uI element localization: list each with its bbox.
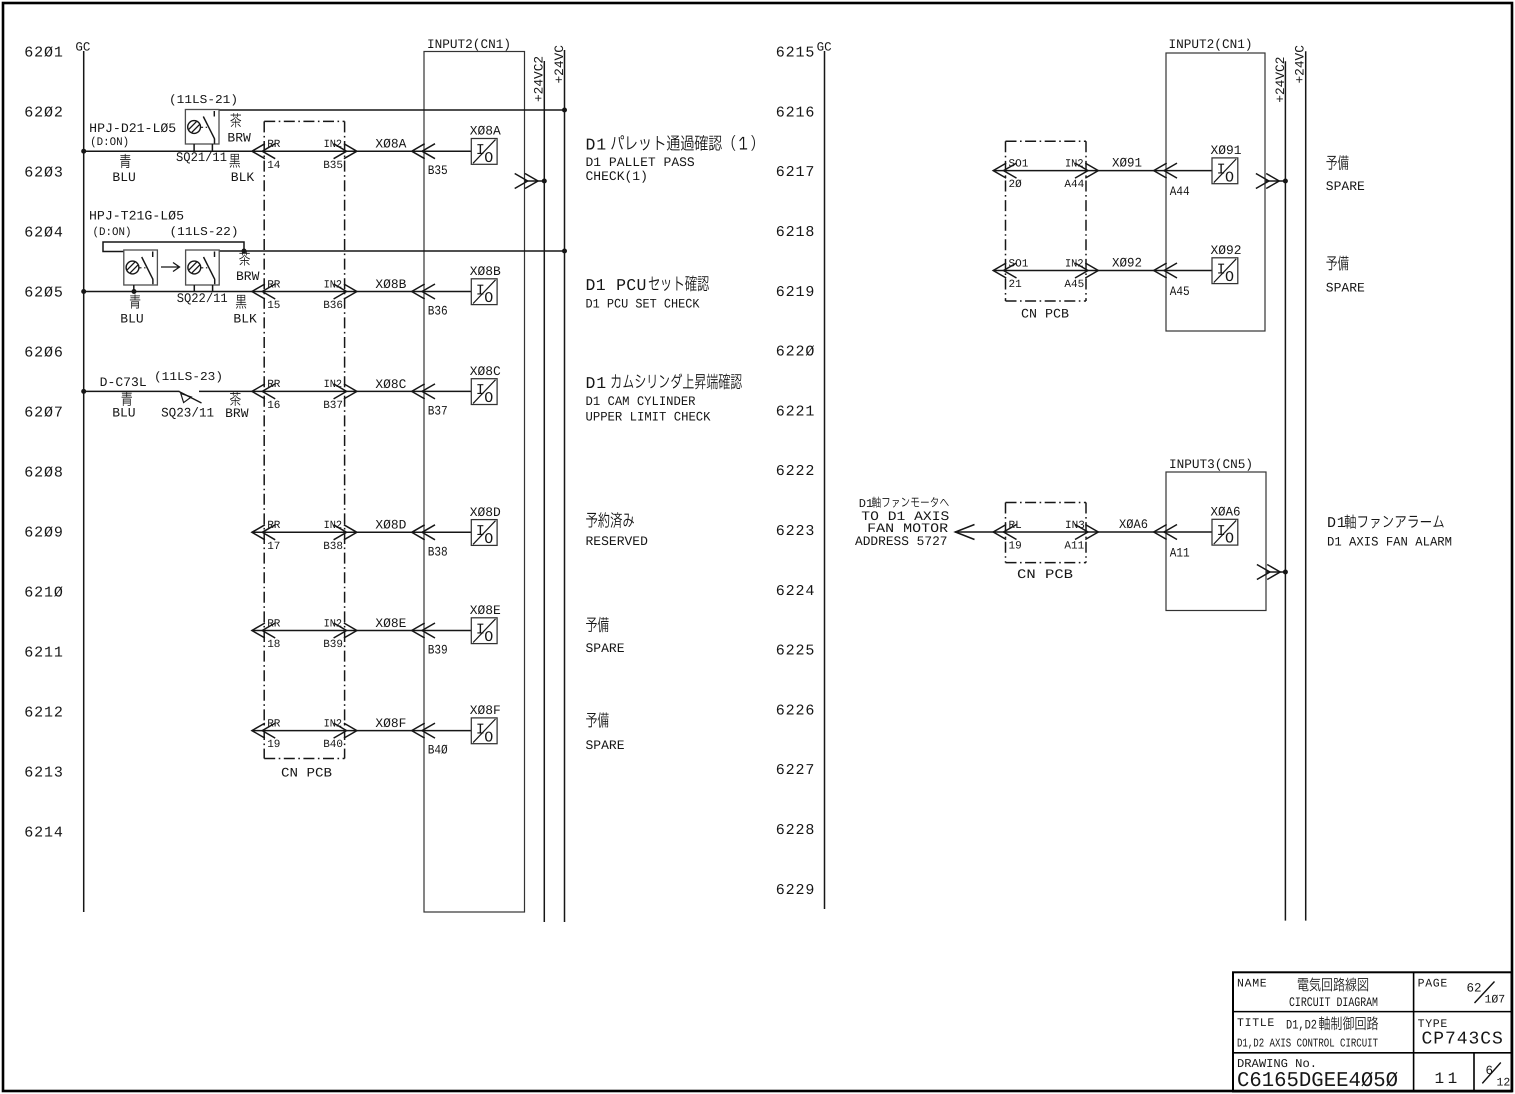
title block PAGE cell — [1418, 978, 1506, 1007]
description X091 (spare) — [1326, 155, 1365, 194]
pin SO1/21 (CN PCB left) — [993, 258, 1029, 291]
svg-text:622Ø: 622Ø — [776, 344, 816, 361]
svg-text:62Ø8: 62Ø8 — [24, 465, 64, 482]
svg-text:6216: 6216 — [776, 104, 816, 121]
title block TYPE cell — [1418, 1018, 1504, 1050]
svg-text:21: 21 — [1009, 279, 1023, 291]
svg-text:A11: A11 — [1064, 541, 1084, 553]
I/O point X08B — [471, 279, 497, 307]
svg-text:IN2: IN2 — [324, 139, 343, 151]
svg-text:B37: B37 — [428, 403, 448, 418]
description row5 (spare) — [586, 617, 625, 656]
svg-text:B37: B37 — [323, 400, 343, 412]
svg-text:XØ8C: XØ8C — [470, 364, 501, 379]
svg-text:SO1: SO1 — [1009, 158, 1029, 170]
pin RR/17 (CN PCB left) — [252, 520, 281, 553]
svg-text:6219: 6219 — [776, 284, 816, 301]
svg-text:O: O — [484, 531, 493, 548]
arrow to D1 axis fan motor — [955, 525, 974, 540]
svg-text:XØ91: XØ91 — [1211, 143, 1242, 158]
svg-text:(D:ON): (D:ON) — [90, 136, 129, 149]
+24VC rail (right) — [1293, 45, 1308, 921]
svg-text:D1 AXIS FAN ALARM: D1 AXIS FAN ALARM — [1327, 534, 1452, 549]
output arrow X0A6 to +24VC2 — [1257, 565, 1288, 580]
svg-text:2Ø: 2Ø — [1009, 179, 1023, 191]
svg-text:14: 14 — [267, 160, 281, 172]
svg-text:CN PCB: CN PCB — [1017, 567, 1073, 582]
svg-text:6228: 6228 — [776, 822, 816, 839]
svg-text:CHECK(1): CHECK(1) — [586, 169, 648, 184]
junction HPJ-T21G stub — [132, 289, 137, 294]
pin arrow into INPUT2 B36 — [412, 284, 425, 299]
I/O point X08A — [471, 139, 497, 167]
svg-text:18: 18 — [267, 639, 280, 651]
wire row X092 — [993, 270, 1212, 272]
svg-text:UPPER LIMIT CHECK: UPPER LIMIT CHECK — [586, 410, 711, 425]
wire row X08C — [84, 390, 472, 392]
svg-text:BRW: BRW — [227, 130, 251, 145]
output arrow X091 to +24VC2 — [1256, 174, 1288, 189]
svg-text:GC: GC — [75, 40, 90, 54]
svg-text:D1: D1 — [586, 136, 607, 155]
svg-text:IN2: IN2 — [324, 279, 343, 291]
svg-text:CN PCB: CN PCB — [1021, 307, 1069, 322]
description X092 (spare) — [1326, 256, 1365, 296]
mechanical link arrow — [161, 263, 180, 272]
I/O point X08D — [471, 520, 497, 548]
svg-text:RESERVED: RESERVED — [586, 534, 649, 549]
wire row X08F — [252, 730, 471, 732]
pin RR/19 (CN PCB left) — [252, 718, 281, 751]
pin arrow into INPUT2 B37 — [412, 384, 425, 399]
left line-number column 6201-6214 — [24, 45, 64, 842]
svg-text:IN2: IN2 — [1065, 158, 1084, 170]
limit switch SQ22/11 — [186, 250, 220, 292]
svg-text:A45: A45 — [1064, 279, 1084, 291]
svg-text:BLK: BLK — [231, 170, 255, 185]
svg-text:IN2: IN2 — [1065, 258, 1084, 270]
I/O point X092 — [1212, 258, 1238, 286]
wire colour BLU (blue) SQ21 — [112, 154, 135, 185]
svg-text:RL: RL — [1009, 520, 1022, 532]
svg-text:NAME: NAME — [1237, 978, 1267, 991]
pin arrow into INPUT2 A44 — [1154, 163, 1167, 178]
pin arrow into INPUT2 B39 — [412, 623, 425, 638]
I/O point X08E — [471, 618, 497, 646]
svg-text:6217: 6217 — [776, 164, 816, 181]
svg-text:B39: B39 — [323, 639, 343, 651]
svg-text:6214: 6214 — [24, 825, 64, 842]
svg-text:CN PCB: CN PCB — [281, 766, 332, 781]
svg-text:6229: 6229 — [776, 882, 816, 899]
svg-text:SO1: SO1 — [1009, 258, 1029, 270]
wire +24VC feed row 6204 — [219, 249, 567, 254]
svg-text:621Ø: 621Ø — [24, 585, 64, 602]
svg-text:XØ8B: XØ8B — [470, 264, 501, 279]
svg-text:XØA6: XØA6 — [1119, 517, 1148, 532]
svg-text:RR: RR — [267, 139, 281, 151]
svg-text:D1: D1 — [586, 374, 607, 393]
+24VC2 rail (left) — [532, 56, 547, 922]
svg-text:D1 CAM CYLINDER: D1 CAM CYLINDER — [586, 394, 696, 409]
svg-text:B40: B40 — [323, 739, 343, 751]
svg-text:XØ8F: XØ8F — [470, 703, 501, 718]
svg-text:XØ8A: XØ8A — [375, 137, 406, 152]
svg-text:62: 62 — [1467, 982, 1482, 996]
svg-text:B35: B35 — [323, 160, 343, 172]
title block NAME cell — [1237, 977, 1378, 1009]
svg-text:O: O — [1225, 531, 1234, 548]
svg-text:RR: RR — [267, 520, 281, 532]
svg-text:6222: 6222 — [776, 463, 816, 480]
svg-text:(11LS-22): (11LS-22) — [170, 225, 239, 239]
svg-text:6223: 6223 — [776, 523, 816, 540]
svg-text:D1 PCU SET CHECK: D1 PCU SET CHECK — [586, 296, 700, 311]
+24VC2 rail (right) — [1273, 57, 1288, 921]
svg-text:6225: 6225 — [776, 643, 816, 660]
limit switch HPJ-T21G-L05 head — [124, 250, 158, 292]
svg-text:B38: B38 — [323, 541, 343, 553]
title block DRAWING cell — [1237, 1057, 1398, 1093]
right line-number column 6215-6229 — [776, 45, 816, 899]
svg-text:6215: 6215 — [776, 45, 816, 62]
wire colour BLU SQ23 — [112, 392, 135, 421]
svg-text:TITLE: TITLE — [1237, 1017, 1275, 1030]
I/O point X08F — [471, 718, 497, 746]
svg-text:XØ8B: XØ8B — [375, 277, 406, 292]
svg-text:17: 17 — [267, 541, 280, 553]
pin IN2/B39 (CN PCB right) — [323, 618, 357, 651]
bus GC (left) — [75, 40, 90, 912]
wire row X08B — [84, 291, 472, 293]
svg-text:62Ø5: 62Ø5 — [24, 285, 64, 302]
connector INPUT3(CN5) box — [1166, 457, 1266, 611]
svg-text:XØ91: XØ91 — [1112, 156, 1142, 171]
title block frame — [1233, 972, 1512, 1091]
svg-text:XØ8C: XØ8C — [375, 377, 406, 392]
svg-text:DRAWING No.: DRAWING No. — [1237, 1057, 1317, 1071]
description row6 (spare) — [586, 712, 625, 753]
pin RR/14 (CN PCB left) — [252, 139, 281, 172]
connector INPUT2(CN1) box (left) — [424, 37, 525, 912]
svg-text:6212: 6212 — [24, 705, 64, 722]
svg-text:SPARE: SPARE — [1326, 179, 1365, 194]
svg-text:15: 15 — [267, 300, 280, 312]
wire colour BRW SQ22 — [236, 251, 260, 284]
svg-text:(11LS-23): (11LS-23) — [154, 370, 223, 384]
svg-text:SPARE: SPARE — [1326, 280, 1365, 295]
svg-text:SQ22/11: SQ22/11 — [177, 291, 228, 306]
svg-text:O: O — [1225, 269, 1234, 286]
connector INPUT2(CN1) box (right) — [1166, 37, 1265, 331]
pin IN2/B40 (CN PCB right) — [323, 718, 357, 751]
svg-text:B38: B38 — [428, 544, 448, 559]
wire colour BLK SQ22 — [233, 295, 257, 327]
svg-text:B39: B39 — [428, 643, 448, 658]
svg-text:IN2: IN2 — [324, 520, 343, 532]
pin arrow into INPUT2 B40 — [412, 723, 425, 738]
svg-text:XØA6: XØA6 — [1211, 505, 1241, 520]
svg-text:B36: B36 — [428, 304, 448, 319]
svg-text:SPARE: SPARE — [586, 641, 625, 656]
svg-text:D1 PCU: D1 PCU — [586, 276, 647, 295]
svg-text:XØ8D: XØ8D — [375, 518, 406, 533]
pin IN2/A45 (CN PCB right) — [1064, 258, 1098, 291]
svg-text:BRW: BRW — [236, 269, 260, 284]
svg-text:BLU: BLU — [120, 312, 143, 327]
svg-text:XØ8E: XØ8E — [375, 616, 406, 631]
svg-text:16: 16 — [267, 400, 280, 412]
pin SO1/20 (CN PCB left) — [993, 158, 1029, 191]
svg-text:BLU: BLU — [112, 405, 135, 420]
svg-text:IN2: IN2 — [324, 379, 343, 391]
limit switch SQ23/11 (D-C73L) contact — [179, 390, 202, 404]
wire row X08D — [252, 531, 471, 533]
junction on GC — [81, 149, 86, 154]
svg-text:INPUT3(CN5): INPUT3(CN5) — [1169, 457, 1253, 472]
svg-text:XØ8D: XØ8D — [470, 505, 501, 520]
svg-text:RR: RR — [267, 279, 281, 291]
svg-text:B4Ø: B4Ø — [428, 743, 448, 758]
svg-text:62Ø3: 62Ø3 — [24, 165, 64, 182]
svg-text:O: O — [484, 390, 493, 407]
svg-text:XØ8A: XØ8A — [470, 124, 501, 139]
pin IN2/B38 (CN PCB right) — [323, 520, 357, 553]
svg-text:CIRCUIT DIAGRAM: CIRCUIT DIAGRAM — [1289, 995, 1378, 1010]
svg-text:RR: RR — [267, 379, 281, 391]
svg-text:BRW: BRW — [225, 406, 249, 421]
connector CN PCB (right upper) dash-dot outline — [1006, 141, 1087, 301]
pin arrow into INPUT2 B38 — [412, 525, 425, 540]
svg-text:A44: A44 — [1170, 184, 1190, 199]
pin RL/19 (CN PCB left) — [993, 520, 1022, 553]
output arrow X08A to +24VC2 — [515, 174, 545, 189]
svg-text:62Ø6: 62Ø6 — [24, 345, 64, 362]
svg-text:IN2: IN2 — [324, 618, 343, 630]
+24VC rail (left) — [552, 45, 567, 922]
svg-text:6218: 6218 — [776, 224, 816, 241]
wire colour BLU SQ22 — [120, 294, 143, 326]
svg-text:62Ø7: 62Ø7 — [24, 405, 64, 422]
svg-text:11: 11 — [1435, 1070, 1461, 1088]
svg-text:A44: A44 — [1064, 179, 1084, 191]
svg-text:O: O — [484, 729, 493, 746]
svg-text:19: 19 — [267, 739, 280, 751]
svg-text:6211: 6211 — [24, 645, 64, 662]
I/O point X091 — [1212, 158, 1238, 186]
pin arrow into INPUT3 A11 — [1154, 525, 1167, 540]
pin arrow into INPUT2 B35 — [412, 144, 425, 159]
svg-text:RR: RR — [267, 718, 281, 730]
bus GC (right) — [817, 40, 832, 909]
pin RR/16 (CN PCB left) — [252, 379, 281, 412]
svg-text:ADDRESS 5727: ADDRESS 5727 — [855, 534, 948, 549]
svg-text:BLU: BLU — [112, 170, 135, 185]
svg-text:6227: 6227 — [776, 762, 816, 779]
svg-text:O: O — [1225, 169, 1234, 186]
svg-text:XØ92: XØ92 — [1211, 243, 1242, 258]
svg-text:HPJ-T21G-LØ5: HPJ-T21G-LØ5 — [89, 209, 184, 224]
wire colour BRW SQ23 — [225, 392, 249, 421]
svg-text:O: O — [484, 150, 493, 167]
I/O point X0A6 — [1212, 519, 1238, 547]
svg-text:D-C73L: D-C73L — [100, 375, 147, 390]
svg-text:INPUT2(CN1): INPUT2(CN1) — [427, 37, 511, 52]
connector CN PCB (left) dash-dot outline — [264, 121, 344, 758]
svg-text:(D:ON): (D:ON) — [93, 226, 132, 239]
svg-text:INPUT2(CN1): INPUT2(CN1) — [1169, 37, 1253, 52]
wire row X091 — [993, 170, 1212, 172]
wire colour BRW (brown) SQ21 — [227, 113, 251, 145]
svg-text:HPJ-D21-LØ5: HPJ-D21-LØ5 — [89, 121, 176, 136]
junction X08A output on +24VC2 — [542, 179, 547, 184]
svg-text:1Ø7: 1Ø7 — [1485, 994, 1506, 1007]
svg-text:CP743CS: CP743CS — [1422, 1029, 1504, 1049]
svg-text:(11LS-21): (11LS-21) — [169, 93, 238, 107]
svg-text:D1,D2: D1,D2 — [1286, 1018, 1317, 1033]
pin IN2/B36 (CN PCB right) — [323, 279, 357, 312]
junction on GC — [81, 289, 86, 294]
pin arrow into INPUT2 A45 — [1154, 263, 1167, 278]
svg-text:A11: A11 — [1170, 546, 1190, 561]
svg-text:6221: 6221 — [776, 403, 816, 420]
pin IN2/B35 (CN PCB right) — [323, 139, 357, 172]
svg-text:XØ8E: XØ8E — [470, 603, 501, 618]
description D1 axis fan alarm — [1327, 514, 1452, 549]
svg-text:D1: D1 — [1327, 515, 1347, 532]
wire row X08E — [252, 630, 471, 632]
svg-text:12: 12 — [1497, 1076, 1511, 1089]
svg-text:A45: A45 — [1170, 284, 1190, 299]
description row2 (D1 PCU set check) — [586, 276, 709, 312]
svg-text:D1 PALLET PASS: D1 PALLET PASS — [586, 155, 695, 170]
svg-text:PAGE: PAGE — [1418, 978, 1448, 991]
wire row X08A — [84, 150, 472, 152]
svg-text:62Ø2: 62Ø2 — [24, 105, 64, 122]
limit switch SQ21/11 (HPJ-D21-L05) — [185, 110, 219, 152]
title block TITLE cell — [1237, 1016, 1378, 1050]
svg-text:O: O — [484, 290, 493, 307]
pin IN3/A11 (CN PCB right) — [1064, 520, 1098, 553]
svg-text:62Ø9: 62Ø9 — [24, 525, 64, 542]
bracket wire over HPJ-T21G switch — [103, 242, 244, 252]
svg-text:62Ø4: 62Ø4 — [24, 225, 64, 242]
svg-text:XØ92: XØ92 — [1112, 256, 1142, 271]
svg-text:D1,D2 AXIS CONTROL CIRCUIT: D1,D2 AXIS CONTROL CIRCUIT — [1237, 1036, 1378, 1050]
svg-text:6213: 6213 — [24, 765, 64, 782]
pin IN2/B37 (CN PCB right) — [323, 379, 357, 412]
svg-text:IN2: IN2 — [324, 718, 343, 730]
svg-text:SPARE: SPARE — [586, 738, 625, 753]
svg-text:6224: 6224 — [776, 583, 816, 600]
description row4 (reserved) — [586, 512, 649, 549]
title block sheet 6/12 — [1482, 1063, 1510, 1090]
pin RR/18 (CN PCB left) — [252, 618, 281, 651]
svg-text:SQ21/11: SQ21/11 — [176, 150, 227, 165]
svg-text:IN3: IN3 — [1065, 520, 1085, 532]
svg-text:19: 19 — [1009, 541, 1022, 553]
svg-text:SQ23/11: SQ23/11 — [161, 405, 214, 420]
junction on GC — [81, 389, 86, 394]
svg-text:6226: 6226 — [776, 702, 816, 719]
svg-text:O: O — [484, 629, 493, 646]
svg-text:XØ8F: XØ8F — [375, 716, 406, 731]
svg-text:C6165DGEE4Ø5Ø: C6165DGEE4Ø5Ø — [1237, 1070, 1398, 1093]
svg-text:62Ø1: 62Ø1 — [24, 45, 64, 62]
wire colour BLK (black) SQ21 — [230, 154, 255, 185]
svg-text:B35: B35 — [428, 163, 448, 178]
pin IN2/A44 (CN PCB right) — [1064, 158, 1098, 191]
wire row X0A6 (fan alarm) — [955, 531, 1212, 533]
description row1 (D1 pallet pass check) — [586, 135, 755, 184]
I/O point X08C — [471, 379, 497, 407]
label to fan motor — [855, 497, 950, 549]
svg-text:RR: RR — [267, 618, 281, 630]
pin RR/15 (CN PCB left) — [252, 279, 281, 312]
wire +24VC feed row 6202 — [219, 108, 567, 113]
svg-text:B36: B36 — [323, 300, 343, 312]
description row3 (D1 cam cylinder upper limit check) — [586, 373, 742, 424]
svg-text:BLK: BLK — [233, 312, 257, 327]
connector CN PCB (right lower) dash-dot outline — [1006, 503, 1087, 563]
